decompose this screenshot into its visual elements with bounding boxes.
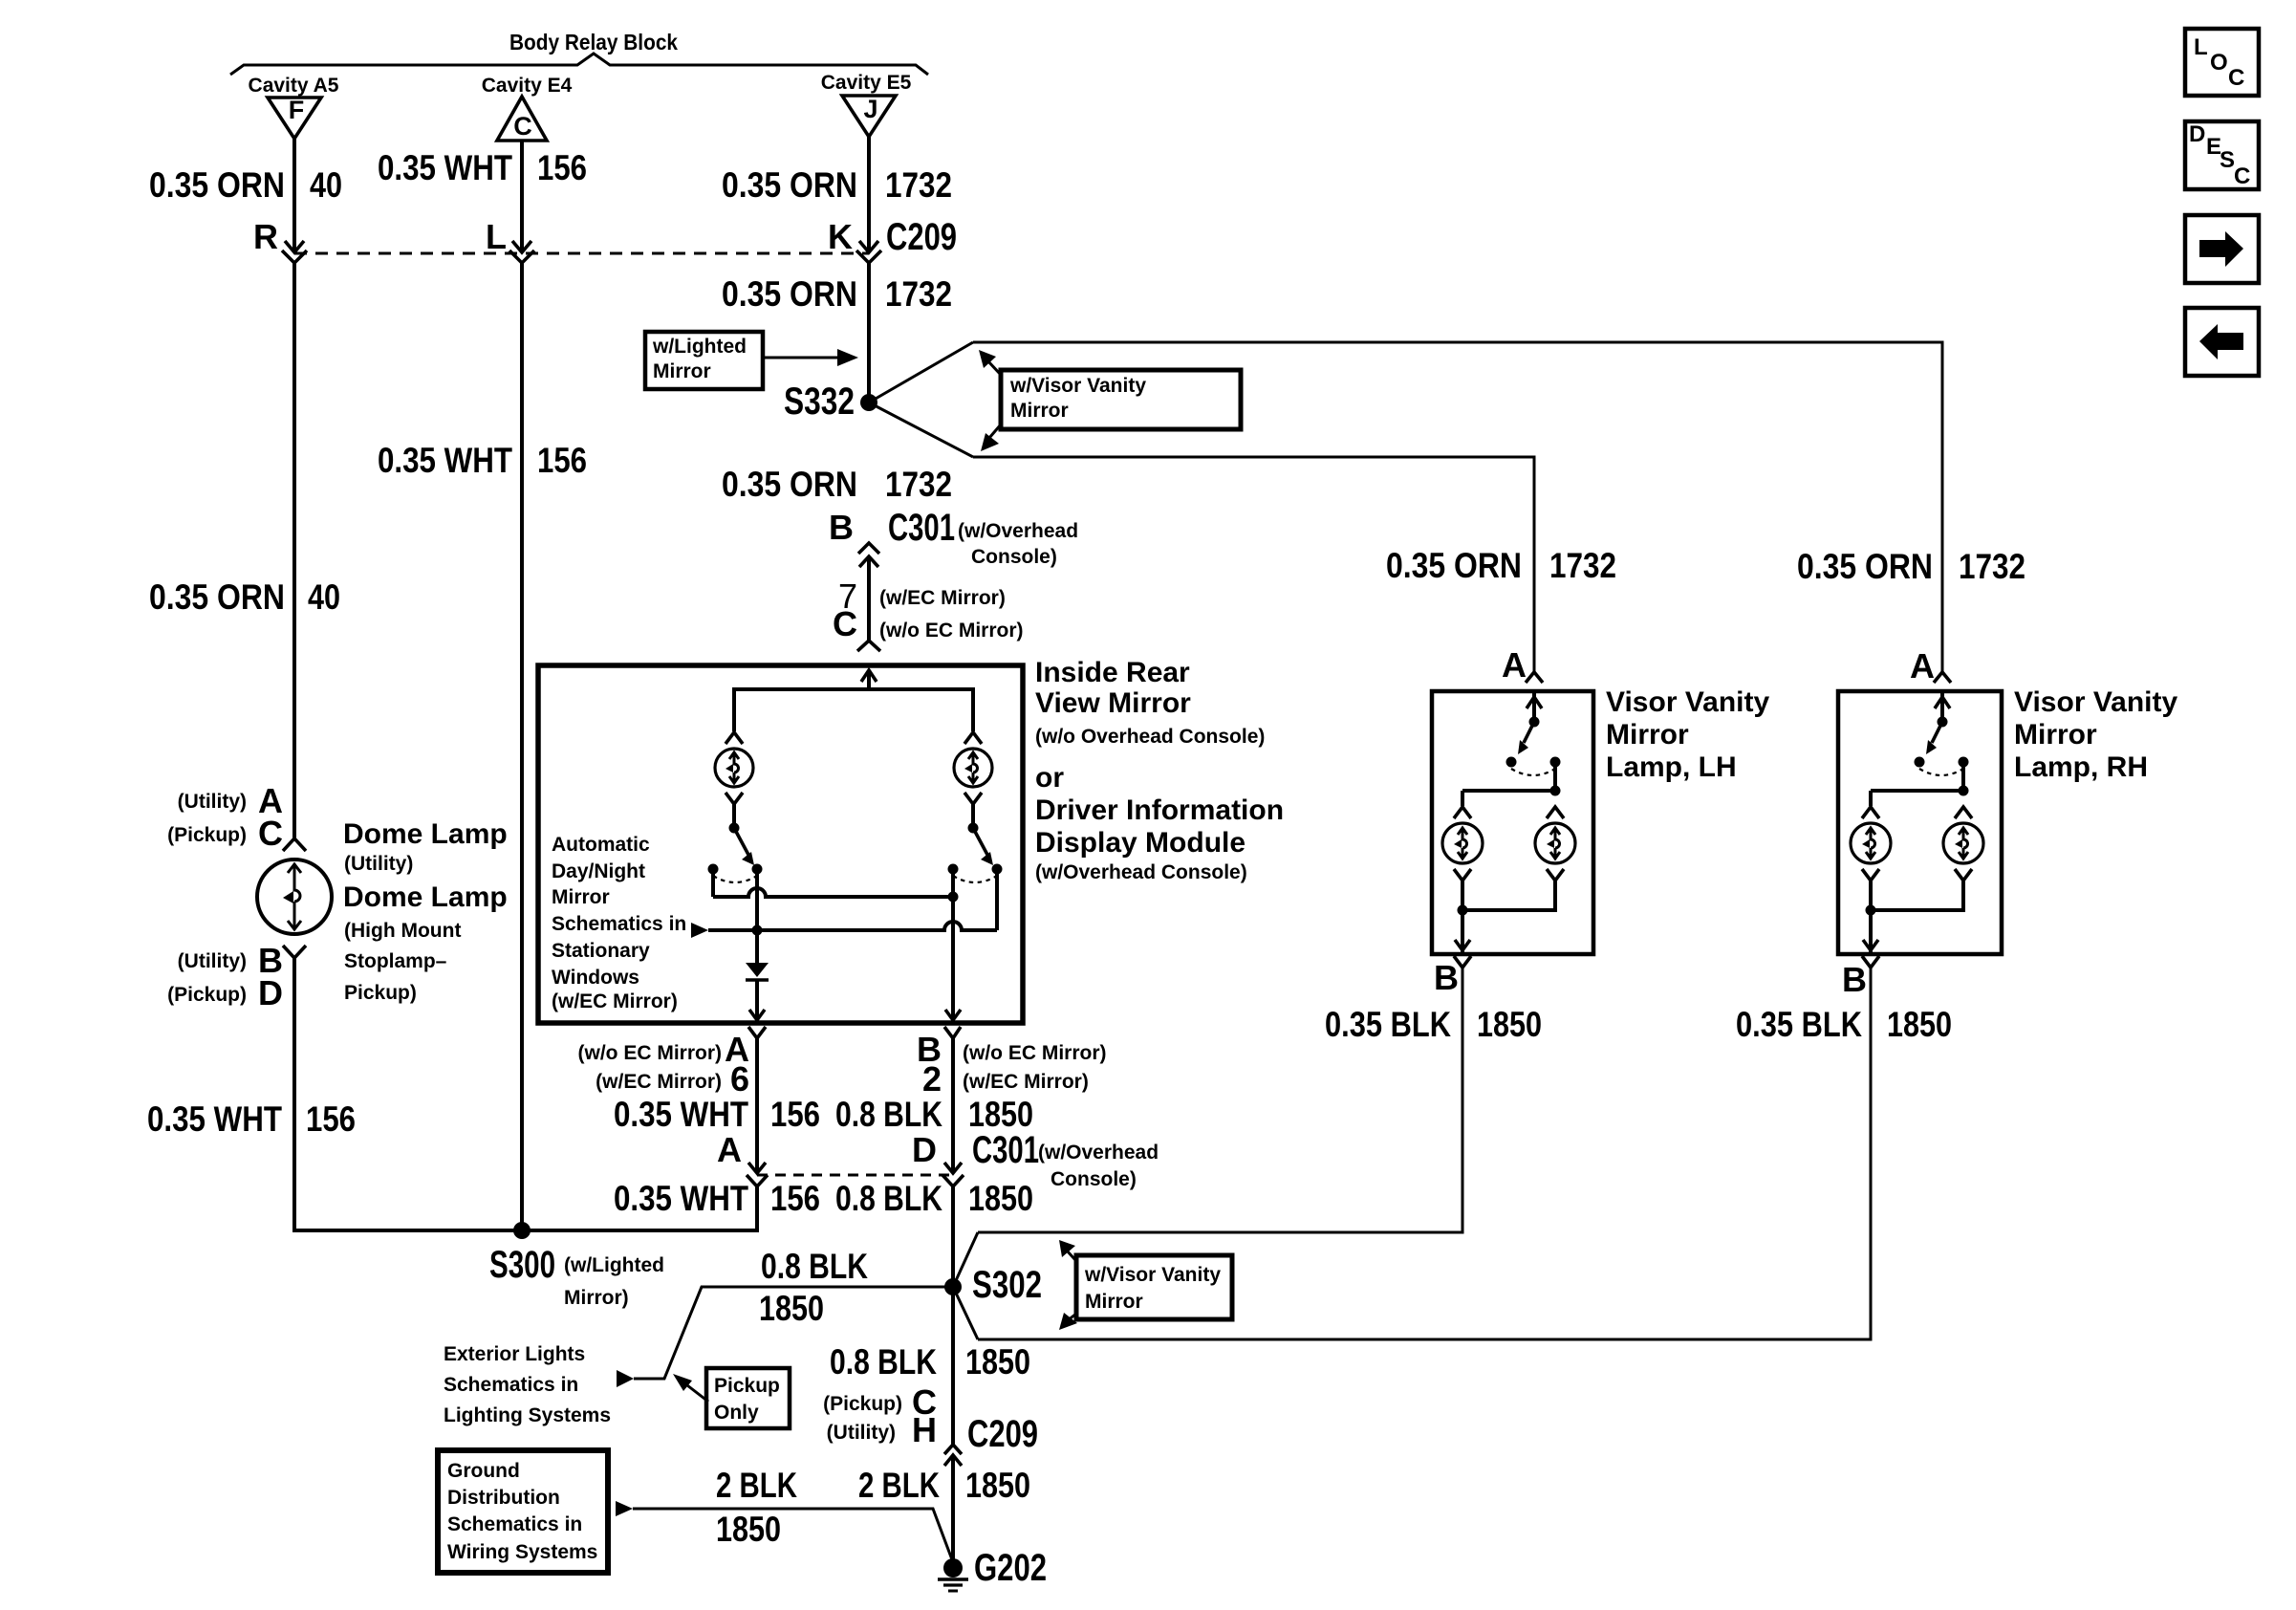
- svg-text:Cavity E5: Cavity E5: [821, 72, 912, 94]
- svg-text:(Pickup): (Pickup): [167, 824, 247, 846]
- wire S302 flag upper diagonal: [953, 1232, 978, 1287]
- svg-text:Cavity A5: Cavity A5: [249, 75, 339, 97]
- svg-text:S300: S300: [489, 1244, 555, 1286]
- svg-text:Automatic: Automatic: [552, 834, 650, 856]
- svg-text:Wiring Systems: Wiring Systems: [447, 1541, 597, 1563]
- connector C209 arrow at K: [859, 241, 878, 252]
- button prev arrow: [2185, 308, 2259, 376]
- svg-text:Visor Vanity: Visor Vanity: [2014, 686, 2178, 718]
- switch RH contact a: [1915, 757, 1925, 768]
- wire A-chevron down to S300 rail: [755, 1186, 759, 1230]
- svg-text:156: 156: [770, 1095, 820, 1134]
- svg-text:0.8 BLK: 0.8 BLK: [835, 1095, 942, 1134]
- connector chevron above dome lamp: [283, 838, 306, 851]
- wire ground distribution branch: [616, 1501, 633, 1516]
- wire to right switch pivot: [971, 804, 975, 828]
- switch right contact b: [992, 864, 1003, 875]
- wire C209-H down to G202: [951, 1455, 955, 1565]
- wire right contact a down to junction: [951, 869, 955, 897]
- svg-text:L: L: [2194, 34, 2208, 60]
- svg-text:D: D: [2189, 121, 2205, 147]
- svg-text:S: S: [2220, 147, 2235, 173]
- button LOC: [2185, 29, 2259, 96]
- wire right contact b down to EC rail: [995, 869, 999, 930]
- svg-text:1850: 1850: [965, 1466, 1030, 1505]
- lamp Dome Lamp: [257, 859, 332, 934]
- switch RH arm: [1932, 722, 1942, 743]
- wire arrow entering box top: [861, 670, 877, 682]
- switch right dashed throw arc: [953, 876, 997, 882]
- svg-text:0.35 ORN: 0.35 ORN: [149, 165, 285, 205]
- svg-text:6: 6: [730, 1059, 749, 1099]
- node junction dot EC rail: [752, 925, 763, 936]
- connector chevron below RH box: [1862, 956, 1879, 968]
- svg-text:A: A: [1502, 645, 1527, 685]
- svg-text:0.35 ORN: 0.35 ORN: [1797, 547, 1933, 586]
- svg-text:(w/o EC Mirror): (w/o EC Mirror): [578, 1042, 723, 1064]
- svg-text:C: C: [258, 814, 283, 853]
- svg-text:Schematics in: Schematics in: [552, 913, 686, 935]
- svg-text:A: A: [1910, 646, 1935, 685]
- node w/Visor Vanity Mirror box (lower): [1076, 1255, 1232, 1319]
- svg-text:0.35 BLK: 0.35 BLK: [1736, 1005, 1862, 1044]
- wire S302 top run to LH visor B: [978, 966, 1462, 1232]
- wire S332 to visor RH feed (top run): [973, 342, 1942, 674]
- svg-text:0.35 WHT: 0.35 WHT: [147, 1099, 282, 1139]
- svg-text:1732: 1732: [885, 274, 952, 314]
- svg-text:40: 40: [310, 165, 342, 205]
- svg-text:Console): Console): [971, 546, 1057, 568]
- svg-text:0.35 WHT: 0.35 WHT: [378, 441, 512, 480]
- connector grommet C (Cavity E4): [497, 97, 547, 141]
- svg-text:K: K: [828, 217, 853, 256]
- lamp RH visor right: [1943, 823, 1983, 863]
- connector chevron at mirror box entry: [857, 641, 880, 651]
- connector C209-H chevron (upper wire): [944, 1445, 962, 1454]
- svg-text:156: 156: [770, 1179, 820, 1218]
- svg-text:B: B: [829, 508, 854, 547]
- wire S302 flag lower diagonal: [953, 1287, 978, 1339]
- connector grommet F (Cavity A5): [268, 98, 321, 139]
- svg-text:C: C: [2228, 65, 2244, 91]
- wire J down to C209: [867, 137, 871, 251]
- component Visor Vanity Mirror Lamp LH box: [1432, 691, 1593, 954]
- switch LH pivot: [1529, 717, 1540, 728]
- svg-text:40: 40: [308, 577, 340, 617]
- connector chevrons below LH lamps: [1454, 869, 1471, 881]
- node w/Visor Vanity Mirror box (upper): [1001, 370, 1241, 429]
- connector chevron above left lamp: [726, 732, 743, 744]
- svg-text:D: D: [258, 973, 283, 1012]
- connector C209 arrow at R: [285, 241, 304, 252]
- wire F down to C209: [292, 139, 296, 251]
- wire exterior lights branch: [634, 1287, 953, 1379]
- connector chevron above right lamp: [964, 732, 982, 744]
- connector chevron below right lamp: [964, 793, 982, 804]
- node junction dot LH bottom rail: [1458, 905, 1468, 916]
- svg-text:w/Lighted: w/Lighted: [652, 336, 747, 358]
- node Ground Distribution box: [438, 1450, 608, 1573]
- lamp LH visor left: [1442, 823, 1483, 863]
- svg-text:Lighting Systems: Lighting Systems: [444, 1404, 611, 1426]
- wire E4 down to S300: [520, 263, 524, 1230]
- wire RH lamp rail: [1871, 789, 1963, 793]
- svg-text:Ground: Ground: [447, 1460, 520, 1482]
- svg-text:G202: G202: [974, 1547, 1047, 1589]
- svg-text:View Mirror: View Mirror: [1035, 687, 1191, 719]
- wire RH pin B exit: [1869, 910, 1873, 952]
- svg-text:C: C: [833, 604, 857, 643]
- switch right contact a: [948, 864, 959, 875]
- svg-text:Stationary: Stationary: [552, 940, 650, 962]
- lamp RH visor left: [1851, 823, 1891, 863]
- splice S302 dot: [944, 1278, 962, 1295]
- wire to left switch pivot: [732, 804, 736, 828]
- svg-text:Day/Night: Day/Night: [552, 860, 645, 882]
- switch left dashed throw arc: [713, 876, 757, 882]
- svg-text:C: C: [513, 112, 532, 141]
- svg-text:R: R: [253, 217, 278, 256]
- wire S332 flag lower diagonal: [869, 402, 973, 457]
- wire S332 flag upper diagonal: [869, 342, 973, 402]
- diode (EC mirror): [746, 963, 769, 977]
- svg-text:0.8 BLK: 0.8 BLK: [761, 1247, 868, 1286]
- svg-text:1850: 1850: [965, 1342, 1030, 1382]
- ground G202: [943, 1558, 963, 1577]
- connector chevron below box pin A: [748, 1027, 766, 1038]
- node junction dot LH rail: [1550, 786, 1561, 796]
- wire arrow lower box to top flag: [1067, 1251, 1076, 1261]
- switch RH dashed throw arc: [1919, 769, 1963, 775]
- connector C209 chevron at L: [509, 250, 534, 263]
- svg-text:Windows: Windows: [552, 967, 639, 989]
- wire RH lamps to bottom rail: [1871, 881, 1963, 910]
- svg-text:(w/EC Mirror): (w/EC Mirror): [879, 587, 1006, 609]
- svg-text:(w/EC Mirror): (w/EC Mirror): [596, 1071, 722, 1093]
- svg-text:(w/Overhead: (w/Overhead: [1038, 1142, 1159, 1164]
- svg-text:1732: 1732: [885, 165, 952, 205]
- svg-text:(Utility): (Utility): [344, 853, 413, 875]
- svg-text:0.35 ORN: 0.35 ORN: [722, 274, 857, 314]
- connector C209 dashed line: [294, 252, 869, 255]
- svg-text:2 BLK: 2 BLK: [716, 1466, 797, 1505]
- svg-text:Mirror: Mirror: [1010, 400, 1069, 422]
- svg-text:0.35 ORN: 0.35 ORN: [722, 165, 857, 205]
- svg-text:B: B: [1434, 958, 1459, 997]
- svg-text:(Utility): (Utility): [178, 791, 247, 813]
- svg-text:Dome Lamp: Dome Lamp: [343, 881, 508, 913]
- svg-text:(w/Overhead Console): (w/Overhead Console): [1035, 861, 1247, 883]
- switch RH contact b: [1959, 757, 1969, 768]
- node w/Lighted Mirror box: [645, 332, 763, 389]
- svg-text:L: L: [486, 217, 507, 256]
- wire LH pin B exit: [1461, 910, 1464, 952]
- wire RH pin A into switch: [1940, 691, 1944, 722]
- splice S332 dot: [860, 394, 877, 411]
- wire LH contact b to lamp rail: [1553, 762, 1557, 791]
- svg-text:0.35 WHT: 0.35 WHT: [378, 148, 512, 187]
- connector C301-B chevron (upper wire): [858, 543, 879, 554]
- connector C301-AD arrows and dashes: [748, 1163, 766, 1173]
- svg-text:or: or: [1035, 762, 1064, 794]
- wire arrow Pickup Only to branch: [687, 1385, 708, 1402]
- svg-text:156: 156: [306, 1099, 356, 1139]
- svg-text:Cavity E4: Cavity E4: [482, 75, 573, 97]
- connector C209 chevron at R: [282, 250, 307, 263]
- connector C301-B arrow (lower wire, pointing up): [859, 556, 878, 567]
- svg-text:Mirror: Mirror: [2014, 719, 2097, 751]
- wire J from C209 to S332: [867, 263, 871, 402]
- switch left contact b: [752, 864, 763, 875]
- svg-text:Lamp, LH: Lamp, LH: [1606, 751, 1737, 783]
- svg-text:1850: 1850: [1887, 1005, 1952, 1044]
- svg-text:Mirror): Mirror): [564, 1287, 629, 1309]
- connector chevron below box pin B: [944, 1027, 961, 1038]
- svg-text:(w/EC Mirror): (w/EC Mirror): [552, 990, 678, 1012]
- connector chevron at RH visor pin A: [1934, 672, 1951, 683]
- connector chevron at LH visor pin A: [1526, 672, 1543, 683]
- svg-text:1850: 1850: [968, 1179, 1033, 1218]
- svg-text:(w/Overhead: (w/Overhead: [958, 520, 1078, 542]
- switch right arm: [973, 828, 987, 855]
- svg-text:C209: C209: [967, 1413, 1038, 1455]
- connector C209 arrow at L: [512, 241, 531, 252]
- connector chevrons below RH lamps: [1862, 869, 1879, 881]
- svg-text:0.35 BLK: 0.35 BLK: [1325, 1005, 1451, 1044]
- switch LH dashed throw arc: [1511, 769, 1555, 775]
- connector C209 chevron at K: [856, 250, 881, 263]
- svg-text:Pickup): Pickup): [344, 982, 417, 1004]
- component Visor Vanity Mirror Lamp RH box: [1838, 691, 2002, 954]
- svg-text:Schematics in: Schematics in: [444, 1374, 578, 1396]
- svg-text:156: 156: [537, 441, 587, 480]
- svg-text:2: 2: [922, 1059, 942, 1099]
- wire left contact a down: [711, 869, 715, 897]
- switch LH contact b: [1550, 757, 1561, 768]
- svg-text:0.8 BLK: 0.8 BLK: [830, 1342, 937, 1382]
- svg-text:D: D: [912, 1130, 937, 1169]
- svg-text:1850: 1850: [1477, 1005, 1542, 1044]
- switch left contact a: [708, 864, 719, 875]
- svg-text:0.35 WHT: 0.35 WHT: [614, 1179, 748, 1218]
- wire interior top rail: [734, 689, 973, 731]
- wire S302 bottom run to RH visor B: [978, 966, 1871, 1339]
- connector chevron below LH box: [1454, 956, 1471, 968]
- lamp left (mirror): [715, 749, 753, 787]
- wire cross rail with hop over x792: [713, 888, 953, 897]
- svg-text:C: C: [2234, 163, 2250, 189]
- wire RH contact b to lamp rail: [1961, 762, 1965, 791]
- svg-text:S302: S302: [972, 1264, 1042, 1306]
- connector chevron below left lamp: [726, 793, 743, 804]
- svg-text:Stoplamp–: Stoplamp–: [344, 950, 447, 972]
- svg-text:Inside Rear: Inside Rear: [1035, 657, 1190, 688]
- wire S302 down to C209-H: [951, 1287, 955, 1445]
- wire arrow upper box to top flag: [987, 360, 1001, 375]
- svg-text:Distribution: Distribution: [447, 1487, 560, 1509]
- svg-text:(High Mount: (High Mount: [344, 920, 461, 942]
- wire F from C209 to dome lamp: [292, 263, 296, 838]
- svg-text:Mirror: Mirror: [653, 360, 711, 382]
- wire LH lamps to bottom rail: [1462, 881, 1555, 910]
- svg-text:Body Relay Block: Body Relay Block: [509, 30, 678, 54]
- svg-text:0.35 ORN: 0.35 ORN: [1386, 546, 1522, 585]
- svg-text:Driver Information: Driver Information: [1035, 794, 1284, 826]
- svg-text:(Utility): (Utility): [827, 1422, 896, 1444]
- lamp LH visor right: [1535, 823, 1575, 863]
- svg-text:0.35 WHT: 0.35 WHT: [614, 1095, 748, 1134]
- button DESC: [2185, 121, 2259, 189]
- svg-text:(w/o Overhead Console): (w/o Overhead Console): [1035, 726, 1265, 748]
- svg-text:S332: S332: [784, 381, 855, 423]
- svg-text:H: H: [912, 1410, 937, 1449]
- svg-text:(Pickup): (Pickup): [823, 1393, 902, 1415]
- node junction dot x997 rail: [948, 892, 959, 903]
- svg-text:Display Module: Display Module: [1035, 827, 1245, 859]
- wire D-chevron down to S302: [951, 1186, 955, 1287]
- wire arrow upper box to bottom flag: [989, 424, 1001, 438]
- node junction dot RH rail: [1959, 786, 1969, 796]
- svg-text:C209: C209: [886, 216, 957, 258]
- wire pin A down to C301: [755, 1038, 759, 1172]
- wire C down to C209: [520, 141, 524, 251]
- wire LH lamp rail: [1462, 789, 1555, 793]
- wire arrow lower box to bottom flag: [1068, 1314, 1076, 1320]
- node junction dot RH bottom rail: [1866, 905, 1876, 916]
- svg-text:Mirror: Mirror: [1606, 719, 1689, 751]
- switch right pivot: [968, 823, 979, 834]
- svg-text:(Pickup): (Pickup): [167, 984, 247, 1006]
- connector chevron below dome lamp: [283, 946, 306, 958]
- svg-text:Mirror: Mirror: [552, 886, 610, 908]
- switch LH contact a: [1506, 757, 1517, 768]
- button next arrow: [2185, 215, 2259, 283]
- svg-text:F: F: [289, 96, 305, 124]
- brace Body Relay Block: [230, 54, 928, 75]
- svg-text:C301: C301: [888, 507, 955, 549]
- svg-text:J: J: [863, 95, 877, 123]
- switch LH arm: [1524, 722, 1534, 743]
- wire dome lamp down to S300 rail: [294, 958, 522, 1230]
- svg-text:(w/EC Mirror): (w/EC Mirror): [963, 1071, 1089, 1093]
- splice S300 dot: [513, 1222, 531, 1239]
- svg-text:A: A: [717, 1130, 742, 1169]
- svg-text:C301: C301: [972, 1129, 1039, 1171]
- svg-text:Schematics in: Schematics in: [447, 1513, 582, 1535]
- wire pin B down to C301: [951, 1038, 955, 1172]
- svg-text:Exterior Lights: Exterior Lights: [444, 1343, 585, 1365]
- wire left contact b down through hop: [755, 869, 759, 963]
- connector chevrons above RH lamps: [1862, 807, 1879, 818]
- svg-text:Visor Vanity: Visor Vanity: [1606, 686, 1770, 718]
- svg-text:1732: 1732: [885, 465, 952, 504]
- wire LH pin A into switch: [1532, 691, 1536, 722]
- wire diode to pin A exit: [755, 980, 759, 1021]
- component Inside Rear View Mirror box: [538, 665, 1023, 1023]
- connector chevrons above LH lamps: [1454, 807, 1471, 818]
- svg-text:w/Visor Vanity: w/Visor Vanity: [1084, 1264, 1221, 1286]
- svg-text:156: 156: [537, 148, 587, 187]
- svg-text:Console): Console): [1051, 1168, 1137, 1190]
- svg-text:Lamp, RH: Lamp, RH: [2014, 751, 2148, 783]
- wire junction to pin B exit: [951, 897, 955, 1021]
- svg-text:B: B: [1842, 960, 1867, 999]
- svg-text:1850: 1850: [759, 1289, 824, 1328]
- svg-text:(w/o EC Mirror): (w/o EC Mirror): [879, 620, 1024, 642]
- wire arrow from w/Lighted Mirror box to S332 wire: [763, 357, 841, 359]
- switch left arm: [734, 828, 748, 855]
- node Pickup Only box: [706, 1368, 790, 1428]
- wire S332 to visor LH feed (bottom run): [973, 457, 1534, 674]
- svg-text:Pickup: Pickup: [714, 1375, 780, 1397]
- connector C209-H arrow (lower wire, up): [944, 1455, 962, 1466]
- wire S300 rail to A wire: [522, 1186, 757, 1230]
- svg-text:Mirror: Mirror: [1085, 1291, 1143, 1313]
- svg-text:1732: 1732: [1549, 546, 1616, 585]
- switch RH pivot: [1938, 717, 1948, 728]
- svg-text:1732: 1732: [1959, 547, 2025, 586]
- wire B to pin 7/C row: [867, 556, 871, 641]
- svg-text:2 BLK: 2 BLK: [858, 1466, 940, 1505]
- svg-text:0.35 ORN: 0.35 ORN: [722, 465, 857, 504]
- wire EC reference rail with hop over x997: [691, 923, 708, 938]
- svg-text:w/Visor Vanity: w/Visor Vanity: [1009, 375, 1146, 397]
- svg-text:Only: Only: [714, 1402, 759, 1424]
- lamp right (mirror): [954, 749, 992, 787]
- connector grommet J (Cavity E5): [842, 96, 896, 137]
- svg-text:(w/o EC Mirror): (w/o EC Mirror): [963, 1042, 1107, 1064]
- svg-text:0.8 BLK: 0.8 BLK: [835, 1179, 942, 1218]
- svg-text:0.35 ORN: 0.35 ORN: [149, 577, 285, 617]
- svg-text:1850: 1850: [716, 1510, 781, 1549]
- svg-text:1850: 1850: [968, 1095, 1033, 1134]
- svg-text:O: O: [2210, 50, 2228, 76]
- svg-text:(Utility): (Utility): [178, 950, 247, 972]
- svg-text:(w/Lighted: (w/Lighted: [564, 1254, 664, 1276]
- svg-text:Dome Lamp: Dome Lamp: [343, 818, 508, 850]
- switch left pivot: [729, 823, 740, 834]
